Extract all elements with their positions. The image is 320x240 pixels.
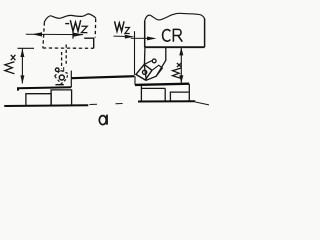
ghost tool screw circle: [55, 68, 59, 72]
workpiece wall: [70, 71, 72, 88]
left Wx top arrowhead: [20, 49, 24, 57]
-Wz left arrowhead: [32, 32, 42, 36]
tool tip extension line: [134, 31, 136, 75]
circuit-free mechanical diagram: lathe tool offset figure: [0, 0, 209, 130]
CR text: [163, 29, 183, 41]
right insert rhombus: [136, 64, 152, 80]
ghost insert circle: [59, 75, 64, 80]
ghost insert outline (dashed): [55, 70, 68, 84]
right turret box right edge: [204, 19, 206, 48]
left base line: [4, 104, 88, 107]
center Wz label: [115, 21, 130, 33]
right tool holder outline: [144, 47, 166, 80]
ghost tool dashed vertical 2: [61, 52, 63, 69]
right turret box wavy top: [145, 13, 205, 21]
right holder clamp piece: [144, 60, 162, 76]
left Wx dimension line: [21, 49, 23, 84]
ghost tool dashed vertical 1: [65, 45, 67, 67]
center Wz dimension line: [114, 35, 131, 37]
CR leader line: [131, 37, 150, 39]
left Wx label (rotated): [5, 55, 15, 74]
-Wz extension tick: [72, 31, 74, 39]
right insert circle: [142, 70, 146, 74]
right big block top: [141, 87, 165, 89]
right base tail: [195, 102, 209, 105]
right base line: [138, 100, 195, 102]
CR arrowhead: [147, 37, 157, 41]
left big block: [51, 90, 72, 105]
ghost turret box bottom edge (dashed): [43, 47, 94, 49]
ghost turret box corner piece: [84, 38, 94, 48]
left Wx top tick: [18, 47, 35, 49]
upper workpiece surface line: [71, 76, 134, 78]
ghost turret box wavy top: [44, 14, 96, 22]
right Wx bottom arrowhead: [179, 75, 183, 83]
-Wz arrow line: [26, 33, 83, 35]
right surface line: [135, 84, 189, 85]
ghost insert bottom line: [55, 84, 63, 86]
right Wx dimension line: [180, 47, 182, 83]
right Wx label (rotated): [173, 63, 182, 78]
left small block: [26, 94, 51, 106]
caption a: [99, 115, 107, 125]
ghost turret box left edge (dashed): [43, 22, 45, 48]
ghost turret box right edge (dashed): [94, 19, 97, 38]
right Wx top arrowhead: [179, 47, 183, 55]
right turret box bottom edge: [145, 46, 205, 48]
ghost insert top bracket: [60, 67, 64, 71]
right turret box left edge: [144, 21, 146, 47]
right block left edge: [140, 85, 142, 102]
base line gap segment 1: [90, 103, 98, 105]
right outer right edge: [188, 84, 190, 101]
left Wx bottom arrowhead: [20, 75, 24, 83]
label -Wz: [65, 20, 87, 32]
base line gap segment 2: [116, 103, 123, 105]
-Wz right arrowhead: [73, 33, 83, 37]
step down to right surface: [134, 76, 136, 85]
left plate top line: [18, 87, 71, 90]
right holder screw circle: [152, 59, 156, 63]
right small block: [170, 92, 188, 101]
center Wz arrowhead: [125, 35, 135, 39]
right big block right edge: [164, 88, 166, 101]
